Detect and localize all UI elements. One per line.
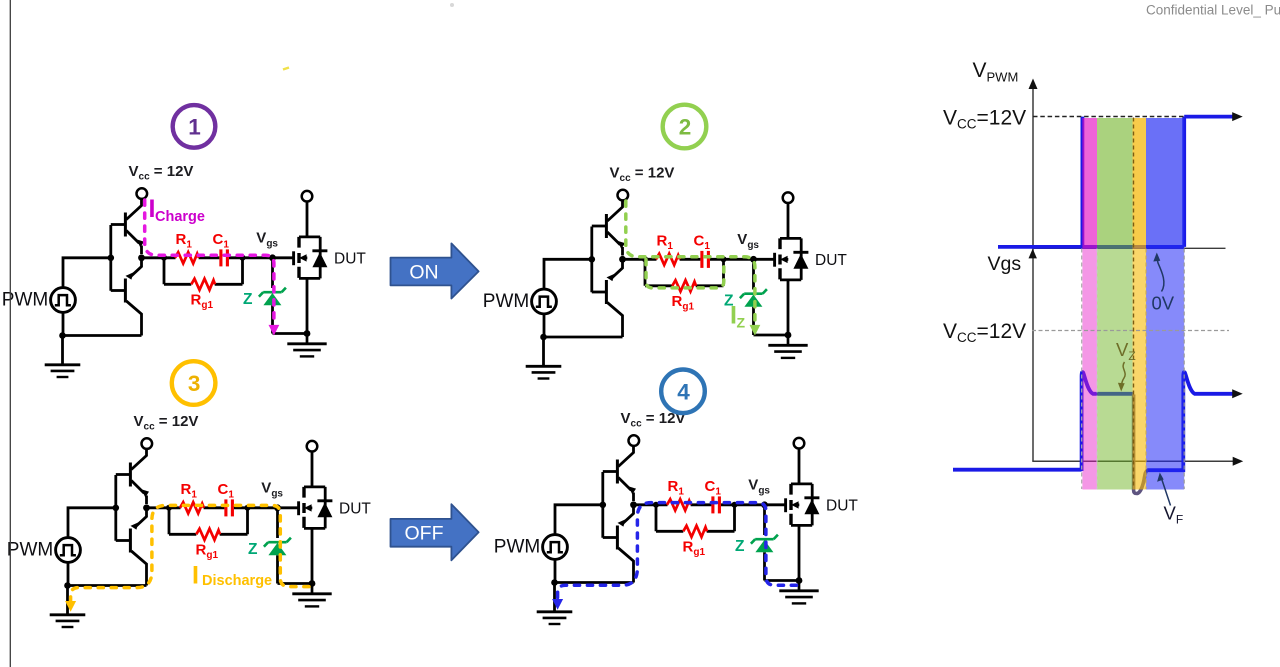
svg-text:2: 2: [679, 115, 692, 140]
svg-text:VCC=12V: VCC=12V: [943, 107, 1026, 132]
svg-text:Discharge: Discharge: [202, 573, 272, 589]
svg-text:Confidential Level_ Pu: Confidential Level_ Pu: [1146, 3, 1280, 18]
svg-text:Z: Z: [737, 315, 746, 331]
svg-text:4: 4: [677, 380, 690, 405]
svg-text:ON: ON: [409, 262, 438, 284]
svg-text:3: 3: [188, 371, 201, 396]
svg-text:VCC=12V: VCC=12V: [943, 320, 1026, 345]
svg-text:I: I: [192, 562, 199, 590]
svg-text:VPWM: VPWM: [973, 59, 1019, 85]
svg-text:1: 1: [188, 115, 201, 140]
svg-text:Vgs: Vgs: [988, 253, 1022, 275]
svg-text:OFF: OFF: [405, 523, 444, 545]
svg-text:0V: 0V: [1152, 293, 1175, 314]
svg-text:VF: VF: [1164, 503, 1184, 527]
svg-text:Charge: Charge: [155, 209, 205, 225]
